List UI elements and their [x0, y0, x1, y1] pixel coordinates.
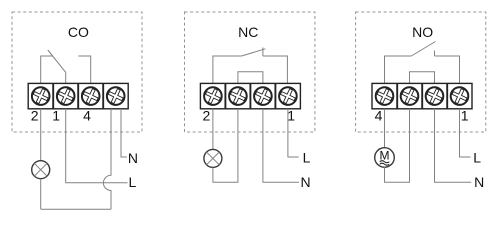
svg-text:1: 1: [287, 107, 295, 123]
motor M1: [375, 148, 395, 168]
dashed enclosure box CO: [12, 12, 142, 132]
internal link terminals 3-2 (NC): [238, 72, 263, 84]
svg-text:N: N: [300, 174, 310, 190]
screw terminal NC-2: [203, 86, 223, 106]
svg-text:CO: CO: [68, 24, 89, 40]
wire terminal 2 down to lamp (NC): [212, 109, 214, 150]
wire terminal 3 to N (NC): [263, 109, 299, 183]
wire terminal 4 down to motor (NO): [384, 109, 386, 148]
switch lever CO (common terminal 1): [48, 50, 66, 83]
screw terminal NO-c: [425, 86, 445, 106]
lamp E1: [32, 161, 50, 179]
svg-text:4: 4: [375, 107, 383, 123]
svg-text:4: 4: [83, 107, 91, 123]
svg-text:L: L: [303, 150, 311, 166]
wire terminal 1 to L (NC): [288, 109, 299, 157]
wire terminal 2 down to lamp: [40, 109, 42, 161]
screw terminal NO-4: [375, 86, 395, 106]
bottom return wire: [41, 208, 111, 210]
wire lamp return (NC): [213, 109, 238, 183]
contact tick NC: [262, 48, 264, 57]
screw terminal NC-b: [228, 86, 248, 106]
motor AC wave: [380, 161, 390, 166]
internal link terminals 3-2 (NO): [410, 72, 435, 84]
wire contact to terminal 1 (NO): [435, 56, 460, 83]
svg-text:N: N: [474, 174, 484, 190]
dashed enclosure box NO: [356, 12, 486, 132]
svg-text:N: N: [128, 150, 138, 166]
wire lamp down: [40, 179, 42, 210]
svg-text:2: 2: [31, 107, 39, 123]
screw terminal NO-1: [450, 86, 470, 106]
svg-text:1: 1: [461, 107, 469, 123]
svg-text:2: 2: [203, 107, 211, 123]
contact of terminal 4 (CO right contact): [78, 56, 90, 83]
contact of terminal 2 (CO left contact): [41, 56, 53, 83]
svg-text:1: 1: [52, 107, 60, 123]
svg-text:L: L: [129, 174, 137, 190]
terminal block CO: [28, 83, 128, 108]
terminal block NO: [372, 83, 472, 108]
screw terminal CO-1: [56, 86, 76, 106]
wire terminal 2 up (NC moving side): [213, 56, 242, 83]
wire motor return (NO): [385, 109, 410, 183]
screw terminal CO-4: [81, 86, 101, 106]
svg-text:NC: NC: [238, 24, 258, 40]
screw terminal NO-b: [400, 86, 420, 106]
lamp cross: [207, 152, 220, 165]
switch lever NC (closed): [242, 49, 266, 56]
terminal block NC: [200, 83, 300, 108]
wire terminal 4 up (NO moving side): [385, 56, 412, 83]
wire up to terminal 4 with hop over L: [103, 109, 111, 209]
svg-text:NO: NO: [412, 24, 433, 40]
wire terminal 4 to N: [121, 109, 127, 157]
wire terminal 3 to N (NO): [435, 109, 472, 183]
dashed enclosure box NC: [185, 12, 315, 132]
wire contact to terminal 1 (NC): [263, 56, 288, 83]
screw terminal CO spare: [106, 86, 126, 106]
wire terminal 1 to L (NO): [460, 109, 471, 157]
switch lever NO (open): [411, 42, 435, 57]
screw terminal NC-c: [253, 86, 273, 106]
screw terminal NC-1: [278, 86, 298, 106]
lamp cross: [34, 163, 47, 176]
screw terminal CO-2: [31, 86, 51, 106]
lamp E2: [204, 149, 222, 167]
svg-text:L: L: [473, 150, 481, 166]
contact tick NO: [434, 51, 436, 57]
wire terminal 1 to L: [66, 109, 128, 183]
